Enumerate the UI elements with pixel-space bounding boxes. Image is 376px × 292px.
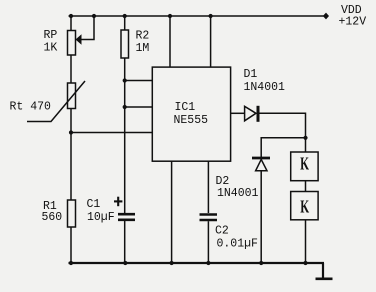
svg-text:K: K — [300, 155, 309, 174]
wire to IC pin upper — [125, 80, 153, 82]
wire R2 bottom down column — [124, 58, 126, 213]
capacitor C2 top plate — [200, 213, 218, 216]
relay K2 box — [291, 192, 318, 220]
op-amp IC1 NE555 box — [152, 67, 230, 161]
wire top rail to R2 top — [124, 16, 126, 30]
relay K1 box — [291, 152, 318, 181]
svg-text:R2: R2 — [136, 30, 150, 43]
node D2 branch junction — [303, 136, 307, 140]
wire wiper feed vertical — [81, 16, 94, 40]
svg-text:1N4001: 1N4001 — [244, 81, 286, 94]
svg-text:C2: C2 — [215, 225, 229, 238]
svg-text:RP: RP — [44, 29, 58, 42]
wire Rt bottom to node — [70, 109, 72, 133]
ground bar — [316, 277, 333, 280]
potentiometer RP body — [68, 31, 76, 56]
node rail junction D2 — [259, 261, 263, 265]
ground symbol — [322, 263, 324, 278]
wire IC top pin 2 — [210, 16, 212, 67]
wire D1 cathode to K column — [260, 113, 306, 152]
svg-text:10µF: 10µF — [87, 211, 115, 224]
wire IC bottom pin 1 to rail — [171, 161, 173, 263]
wire IC bottom pin 2 to C2 — [207, 161, 209, 213]
wire C2 bottom to rail — [207, 221, 209, 263]
node rail junction C2 — [206, 261, 210, 265]
node rail junction R1 — [69, 261, 73, 265]
capacitor C1 plus plate — [118, 213, 135, 216]
diode D1 triangle — [245, 106, 256, 121]
wire RP bottom to Rt top — [70, 55, 72, 83]
node top rail junction at R2 column — [123, 14, 127, 18]
thermistor Rt diagonal stroke — [27, 81, 85, 122]
svg-text:C1: C1 — [87, 198, 101, 211]
svg-text:+12V: +12V — [339, 16, 367, 29]
diode D2 cathode bar — [252, 157, 270, 160]
svg-text:560: 560 — [42, 211, 63, 224]
wire R1 bottom to ground rail — [70, 227, 72, 263]
wire ground rail — [69, 262, 325, 264]
potentiometer RP wiper arrow — [76, 34, 82, 45]
thermistor Rt body — [68, 83, 76, 109]
wire K1 to K2 — [305, 181, 307, 192]
node Rt junction — [69, 130, 73, 134]
wire node to R1 top — [70, 133, 72, 201]
VDD arrow terminal — [323, 13, 329, 20]
node top rail junction at wiper feed — [92, 14, 96, 18]
wire IC top pin 1 — [169, 16, 171, 67]
diode D1 cathode bar — [257, 106, 260, 122]
capacitor C2 bottom plate — [200, 219, 218, 222]
svg-text:Rt 470: Rt 470 — [10, 101, 52, 114]
wire K2 to rail — [305, 220, 307, 263]
node top rail junction at IC pin 2 — [209, 14, 213, 18]
svg-text:0.01µF: 0.01µF — [217, 238, 259, 251]
wire D2 anode to rail — [260, 171, 262, 263]
wire branch to D2 — [261, 138, 305, 157]
node R2 column junction lower — [123, 105, 127, 109]
svg-text:K: K — [300, 198, 309, 217]
C1 polarity plus — [114, 197, 122, 207]
svg-text:NE555: NE555 — [174, 114, 209, 127]
wire Rt node to IC pin — [71, 132, 152, 134]
svg-text:1K: 1K — [44, 42, 58, 55]
node R2 column junction upper — [123, 78, 127, 82]
wire C1 bottom to rail — [124, 221, 126, 263]
wire top rail to RP top — [70, 16, 72, 31]
svg-text:1N4001: 1N4001 — [217, 187, 259, 200]
svg-text:D1: D1 — [244, 68, 258, 81]
resistor R2 body — [121, 30, 129, 58]
capacitor C1 minus plate — [118, 219, 135, 222]
node rail junction C1 — [123, 261, 127, 265]
diode D2 triangle — [256, 159, 267, 170]
node rail junction IC pin — [170, 261, 174, 265]
svg-text:IC1: IC1 — [175, 101, 196, 114]
node top rail junction at RP column — [69, 14, 73, 18]
node rail junction K — [303, 261, 307, 265]
svg-text:1M: 1M — [136, 42, 150, 55]
resistor R1 body — [68, 200, 76, 227]
node top rail junction at IC pin — [168, 14, 172, 18]
wire to IC pin lower — [125, 106, 153, 108]
wire VDD top rail — [69, 15, 324, 17]
wire IC output to D1 — [231, 112, 245, 114]
